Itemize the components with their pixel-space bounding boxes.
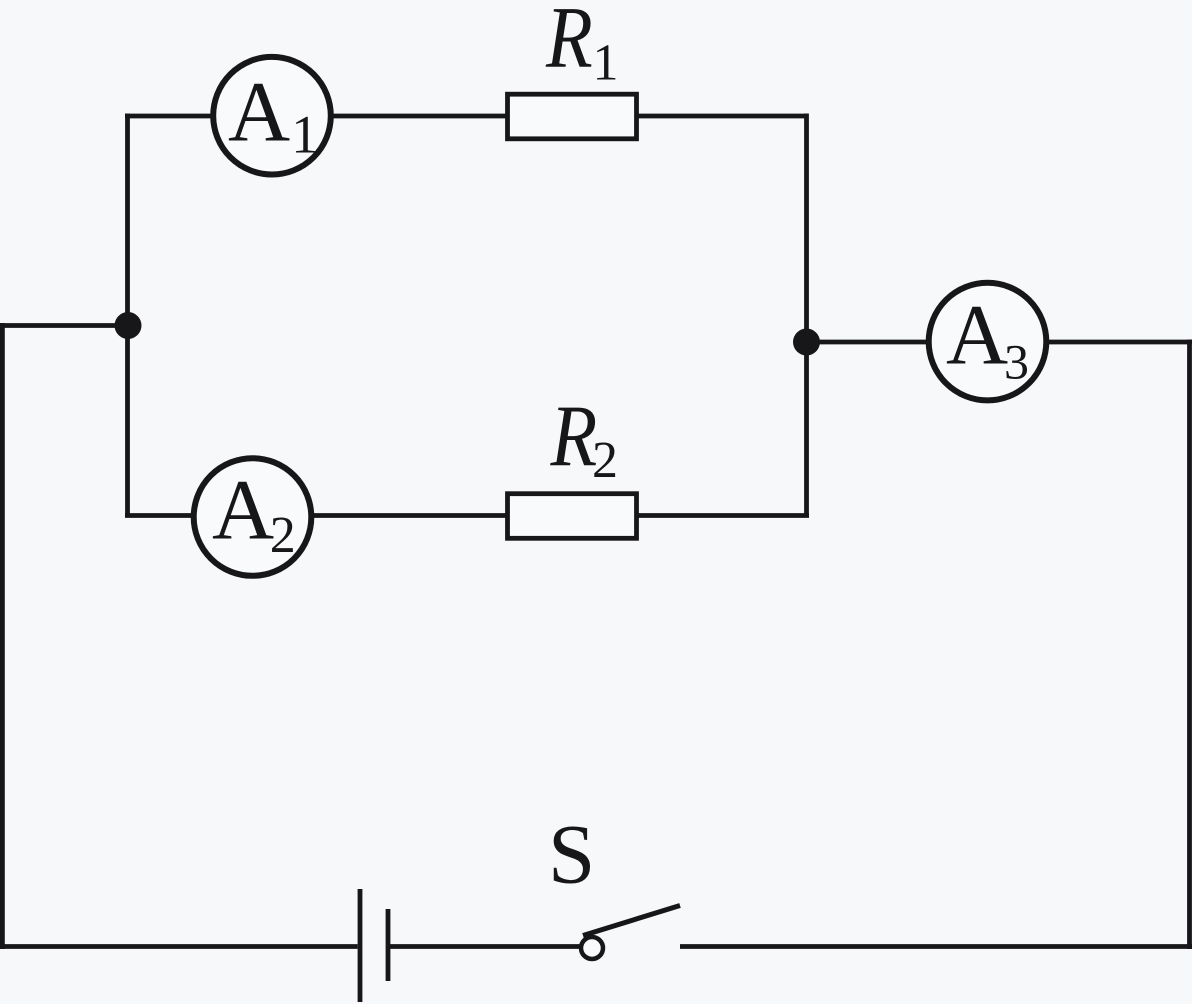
label R1 — [545, 0, 618, 92]
wire R2 to right vertical — [636, 513, 809, 518]
resistor R1 — [508, 94, 637, 139]
switch S lever — [583, 906, 680, 936]
wire right rail vertical — [1187, 340, 1192, 950]
wire stub node A to left rail — [0, 323, 128, 328]
svg-text:A: A — [228, 64, 290, 160]
ammeter A2 — [194, 458, 312, 576]
svg-text:3: 3 — [1004, 334, 1029, 390]
svg-text:S: S — [548, 808, 595, 902]
resistor R2 — [508, 494, 637, 539]
wire bottom right (right rail to switch) — [680, 944, 1192, 949]
battery negative plate (short) — [386, 909, 391, 981]
wire R1 to top-right corner — [636, 114, 807, 119]
wire left vertical (top corner through node A down to A2 branch) — [125, 114, 130, 516]
switch S pivot circle — [581, 937, 603, 959]
battery positive plate (long) — [358, 889, 363, 1002]
wire bottom left (left rail to battery) — [0, 944, 358, 949]
label R2 — [550, 388, 618, 489]
svg-text:R: R — [545, 0, 593, 86]
svg-text:A: A — [946, 287, 1008, 383]
node B (right junction dot) — [793, 329, 820, 356]
wire A2 to R2 — [311, 513, 508, 518]
wire A3 to right rail — [1046, 340, 1192, 345]
wire top-left horizontal (node column to A1) — [125, 114, 214, 119]
wire A1 to R1 — [330, 114, 508, 119]
svg-text:A: A — [212, 462, 274, 558]
ammeter A3 — [929, 283, 1047, 401]
svg-text:2: 2 — [270, 507, 296, 564]
svg-text:1: 1 — [593, 35, 619, 92]
node A (left junction dot) — [115, 312, 142, 339]
ammeter A1 — [213, 57, 331, 175]
wire battery to switch — [389, 944, 581, 949]
wire node B to A3 — [807, 340, 931, 345]
wire left rail vertical — [0, 323, 5, 949]
svg-text:1: 1 — [291, 105, 318, 165]
wire right vertical (top corner through node B down to R2 branch) — [804, 114, 809, 516]
svg-text:2: 2 — [592, 432, 618, 489]
wire A2 branch horizontal (corner to A2) — [125, 513, 195, 518]
svg-text:R: R — [550, 388, 598, 485]
